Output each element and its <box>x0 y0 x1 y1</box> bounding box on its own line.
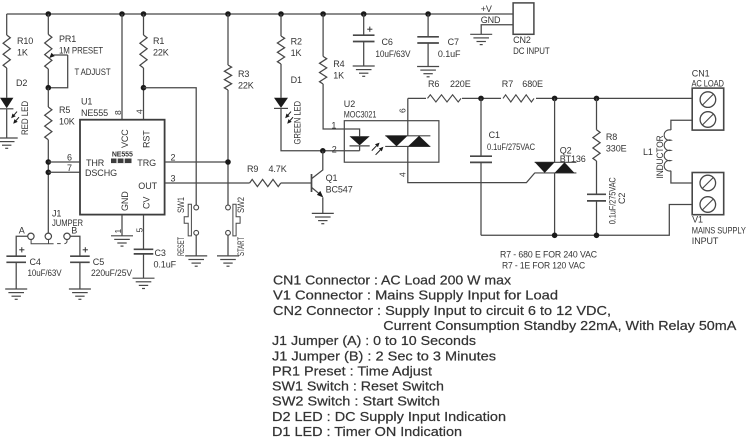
node C1 junction <box>478 96 484 102</box>
wire CN1 to L1 <box>671 120 692 130</box>
ground for C6 <box>353 66 375 76</box>
svg-text:NE555: NE555 <box>81 108 108 118</box>
wire VCC pin8 <box>121 14 123 120</box>
svg-text:220E: 220E <box>450 79 471 89</box>
resistor R3 <box>227 14 229 65</box>
ground for C5 <box>69 289 91 299</box>
svg-text:C5: C5 <box>93 257 104 267</box>
svg-text:U2: U2 <box>344 99 355 109</box>
svg-text:220uF/25V: 220uF/25V <box>91 268 132 278</box>
resistor R8 <box>596 98 598 129</box>
wire J1-A to C4 <box>16 236 28 256</box>
wire J1-B to C5 <box>70 236 80 256</box>
wire OUT pin3 <box>165 182 250 184</box>
svg-text:START: START <box>236 237 246 256</box>
svg-text:D2: D2 <box>16 78 27 88</box>
node dots on +V rail <box>46 11 52 17</box>
op-amp U2 MOC3021 box <box>344 121 439 163</box>
capacitor C7 <box>427 14 429 37</box>
svg-text:1: 1 <box>113 229 123 234</box>
svg-text:680E: 680E <box>522 79 543 89</box>
op-amp U1 NE555 body <box>80 120 165 215</box>
svg-text:22K: 22K <box>238 80 254 90</box>
jumper J1 <box>28 233 34 239</box>
svg-text:R2: R2 <box>291 37 302 47</box>
svg-text:C1: C1 <box>489 130 500 140</box>
svg-text:BT136: BT136 <box>560 154 586 164</box>
svg-text:RESET: RESET <box>176 237 186 256</box>
resistor R5 <box>47 88 49 107</box>
wire D1 cathode to pin2 <box>281 108 360 150</box>
node R8 top junction <box>594 96 600 102</box>
svg-text:THR: THR <box>86 158 105 168</box>
svg-text:R3: R3 <box>238 69 249 79</box>
svg-text:330E: 330E <box>606 143 627 153</box>
wire CN2 GND <box>481 25 513 35</box>
ground for CN2 <box>470 34 492 44</box>
svg-text:MAINS SUPPLY: MAINS SUPPLY <box>692 225 746 235</box>
preset PR1 <box>47 14 49 34</box>
capacitor C6 <box>363 14 365 35</box>
svg-text:VCC: VCC <box>120 129 130 148</box>
svg-text:R7: R7 <box>502 79 513 89</box>
wire THR pin6 <box>48 161 80 163</box>
svg-text:R10: R10 <box>17 36 33 46</box>
svg-text:C2: C2 <box>617 193 627 204</box>
opto LED <box>350 136 370 145</box>
resistor R10 <box>6 14 8 35</box>
node Q1 collector junction <box>320 148 326 154</box>
svg-text:SW2 Switch : Start Switch: SW2 Switch : Start Switch <box>272 394 440 409</box>
node PR1 wiper junction <box>46 85 52 91</box>
svg-text:1K: 1K <box>17 47 28 57</box>
connector CN1 <box>692 88 724 130</box>
svg-text:RST: RST <box>141 130 151 148</box>
resistor R6 <box>426 93 462 104</box>
svg-text:OUT: OUT <box>138 181 157 191</box>
svg-text:INDUCTOR: INDUCTOR <box>655 135 665 179</box>
svg-text:PR1 Preset : Time Adjust: PR1 Preset : Time Adjust <box>272 363 432 378</box>
svg-text:4: 4 <box>397 172 407 177</box>
node Q2 top junction <box>552 96 558 102</box>
switch SW2 <box>226 205 231 210</box>
wire +V top rail <box>7 13 513 15</box>
capacitor C3 <box>134 249 154 254</box>
svg-text:10uF/63V: 10uF/63V <box>375 49 410 59</box>
capacitor C5 <box>70 256 90 262</box>
svg-text:GND: GND <box>120 191 130 211</box>
wire MOC pin6 <box>407 98 409 135</box>
wire AC top line <box>408 97 692 99</box>
svg-text:PR1: PR1 <box>59 34 76 44</box>
svg-text:R4: R4 <box>333 59 344 69</box>
switch SW1 <box>194 205 199 210</box>
svg-text:TRG: TRG <box>137 158 156 168</box>
svg-text:R7 - 1E FOR 120 VAC: R7 - 1E FOR 120 VAC <box>502 261 586 271</box>
svg-text:U1: U1 <box>81 97 92 107</box>
svg-text:T ADJUST: T ADJUST <box>75 67 112 77</box>
ground for D2 <box>0 138 18 148</box>
ground for C4 <box>5 289 27 299</box>
svg-text:Current Consumption Standby 22: Current Consumption Standby 22mA, With R… <box>383 318 736 333</box>
svg-text:0.1uF/275VAC: 0.1uF/275VAC <box>487 142 536 152</box>
svg-text:SW1: SW1 <box>176 197 186 213</box>
svg-text:SW2: SW2 <box>236 197 246 213</box>
svg-text:CV: CV <box>141 197 151 209</box>
connector V1 <box>692 173 724 215</box>
LED D2 <box>0 98 13 108</box>
triac Q2 <box>554 98 556 162</box>
svg-text:D2 LED : DC Supply Input Indic: D2 LED : DC Supply Input Indication <box>272 409 506 424</box>
node C2 bottom junction <box>594 233 600 239</box>
svg-text:10uF/63V: 10uF/63V <box>28 268 62 278</box>
wire AC bottom line <box>481 205 692 236</box>
svg-text:J1 Jumper (A) : 0 to 10 Second: J1 Jumper (A) : 0 to 10 Seconds <box>272 333 477 348</box>
svg-text:V1 Connector : Mains Supply In: V1 Connector : Mains Supply Input for Lo… <box>273 288 558 303</box>
ground for SW2 <box>217 256 239 266</box>
svg-text:C7: C7 <box>448 37 459 47</box>
svg-text:CN1 Connector : AC Load 200 W: CN1 Connector : AC Load 200 W max <box>273 273 512 288</box>
svg-text:CN1: CN1 <box>692 68 710 78</box>
svg-text:GND: GND <box>481 15 501 25</box>
svg-text:CN2 Connector : Supply Input t: CN2 Connector : Supply Input to circuit … <box>273 303 611 318</box>
capacitor C4 <box>6 256 26 262</box>
svg-text:NE555: NE555 <box>112 151 133 158</box>
svg-text:D1: D1 <box>291 75 302 85</box>
ground for pin1 <box>111 236 133 246</box>
svg-text:0.1uF: 0.1uF <box>154 259 177 269</box>
svg-text:SW1 Switch : Reset Switch: SW1 Switch : Reset Switch <box>272 379 444 394</box>
svg-text:AC LOAD: AC LOAD <box>692 78 725 88</box>
svg-text:R7 - 680 E FOR 240 VAC: R7 - 680 E FOR 240 VAC <box>500 250 598 260</box>
svg-text:1K: 1K <box>291 48 302 58</box>
svg-text:C4: C4 <box>30 257 41 267</box>
svg-text:DC INPUT: DC INPUT <box>513 46 550 56</box>
svg-text:6: 6 <box>397 108 407 113</box>
opto arrows <box>372 146 377 151</box>
svg-text:INPUT: INPUT <box>692 236 719 246</box>
opto triac <box>385 135 430 137</box>
svg-text:+V: +V <box>481 4 492 14</box>
wire RST to SW1 <box>144 88 197 206</box>
svg-text:2: 2 <box>171 153 176 163</box>
node DSCHG junction <box>46 170 52 176</box>
svg-text:BC547: BC547 <box>326 185 353 195</box>
svg-text:8: 8 <box>113 110 123 115</box>
svg-text:GREEN LED: GREEN LED <box>293 100 303 144</box>
svg-text:D1 LED : Timer ON Indication: D1 LED : Timer ON Indication <box>272 424 462 439</box>
svg-text:C6: C6 <box>382 37 393 47</box>
wire CV pin5 <box>143 215 145 250</box>
svg-text:22K: 22K <box>153 47 169 57</box>
svg-text:R8: R8 <box>606 132 617 142</box>
svg-text:R1: R1 <box>153 36 164 46</box>
svg-text:CN2: CN2 <box>513 35 531 45</box>
svg-text:1M PRESET: 1M PRESET <box>59 45 104 55</box>
resistor R1 <box>143 14 145 35</box>
svg-text:2: 2 <box>332 144 337 154</box>
inductor L1 <box>664 130 671 171</box>
ground for C7 <box>417 67 439 77</box>
svg-text:J1 Jumper (B) : 2 Sec to 3 Min: J1 Jumper (B) : 2 Sec to 3 Minutes <box>272 348 497 363</box>
svg-text:JUMPER: JUMPER <box>52 218 84 228</box>
svg-text:B: B <box>71 225 77 235</box>
svg-text:Q1: Q1 <box>326 173 338 183</box>
svg-text:1K: 1K <box>333 70 344 80</box>
svg-text:R9: R9 <box>247 164 258 174</box>
svg-text:4: 4 <box>135 109 145 114</box>
svg-text:J1: J1 <box>52 209 61 219</box>
svg-text:R5: R5 <box>59 105 70 115</box>
svg-text:C3: C3 <box>155 248 166 258</box>
node R1-RST junction <box>141 85 147 91</box>
connector CN2 box <box>513 3 534 34</box>
svg-text:V1: V1 <box>692 214 703 224</box>
ground for C3 <box>133 278 155 288</box>
wire MOC pin4 to gate <box>408 146 535 182</box>
capacitor C2 <box>587 194 606 201</box>
wire TRG pin2 <box>165 161 228 163</box>
resistor R9 <box>250 179 281 186</box>
svg-text:L1: L1 <box>643 147 653 157</box>
wire DSCHG pin7 <box>48 171 80 173</box>
resistor R7 <box>501 93 536 104</box>
node Q2 bottom junction <box>552 233 558 239</box>
svg-text:3: 3 <box>171 174 176 184</box>
svg-text:RED LED: RED LED <box>20 100 30 135</box>
svg-text:7: 7 <box>67 163 72 173</box>
svg-text:5: 5 <box>135 228 145 233</box>
resistor R4 <box>322 14 324 56</box>
ground for SW1 <box>185 256 207 266</box>
svg-text:R6: R6 <box>428 79 439 89</box>
node THR junction <box>46 159 52 165</box>
svg-text:DSCHG: DSCHG <box>85 168 117 178</box>
svg-text:1: 1 <box>331 121 336 131</box>
node TRG junction <box>225 159 231 165</box>
ground for Q1 <box>312 213 334 223</box>
transistor Q1 <box>311 174 313 192</box>
svg-text:A: A <box>19 225 25 235</box>
svg-text:0.1uF: 0.1uF <box>438 49 461 59</box>
resistor R2 <box>280 14 282 36</box>
wire GND pin1 <box>121 215 123 236</box>
LED D1 <box>274 98 288 108</box>
svg-text:MOC3021: MOC3021 <box>344 110 377 120</box>
svg-text:6: 6 <box>67 153 72 163</box>
capacitor C1 <box>480 98 482 156</box>
svg-text:4.7K: 4.7K <box>269 164 287 174</box>
svg-text:0.1uF/275VAC: 0.1uF/275VAC <box>608 177 618 224</box>
svg-text:10K: 10K <box>59 116 75 126</box>
